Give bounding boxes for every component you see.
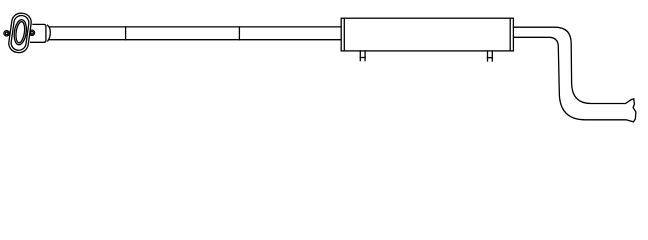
bolt hole left xyxy=(5,32,8,35)
flange bolt ear right xyxy=(29,30,34,35)
tail pipe outer contour xyxy=(514,27,634,103)
flange port outer ellipse xyxy=(13,19,28,46)
muffler right end cap seam xyxy=(509,18,511,51)
pipe end bead arc at cone outlet xyxy=(48,25,51,41)
bolt hole right xyxy=(31,31,34,34)
pipe seam 1 xyxy=(125,27,127,40)
inlet cone cup behind flange xyxy=(31,24,46,42)
flange plate inner outline xyxy=(10,15,30,52)
flange port inner ellipse xyxy=(15,21,26,43)
pipe seam 2 xyxy=(238,27,240,40)
hanger bracket 2 xyxy=(488,51,493,61)
muffler body xyxy=(341,18,513,51)
inlet pipe top line xyxy=(49,26,340,28)
muffler left end cap seam xyxy=(343,18,345,51)
flange plate outer outline xyxy=(8,12,33,54)
hanger bracket 1 xyxy=(360,51,365,61)
inlet pipe bottom line xyxy=(49,39,340,41)
tail pipe tip opening edge xyxy=(633,99,636,122)
flange bolt ear left xyxy=(4,31,9,36)
tail pipe inner contour xyxy=(514,37,633,122)
